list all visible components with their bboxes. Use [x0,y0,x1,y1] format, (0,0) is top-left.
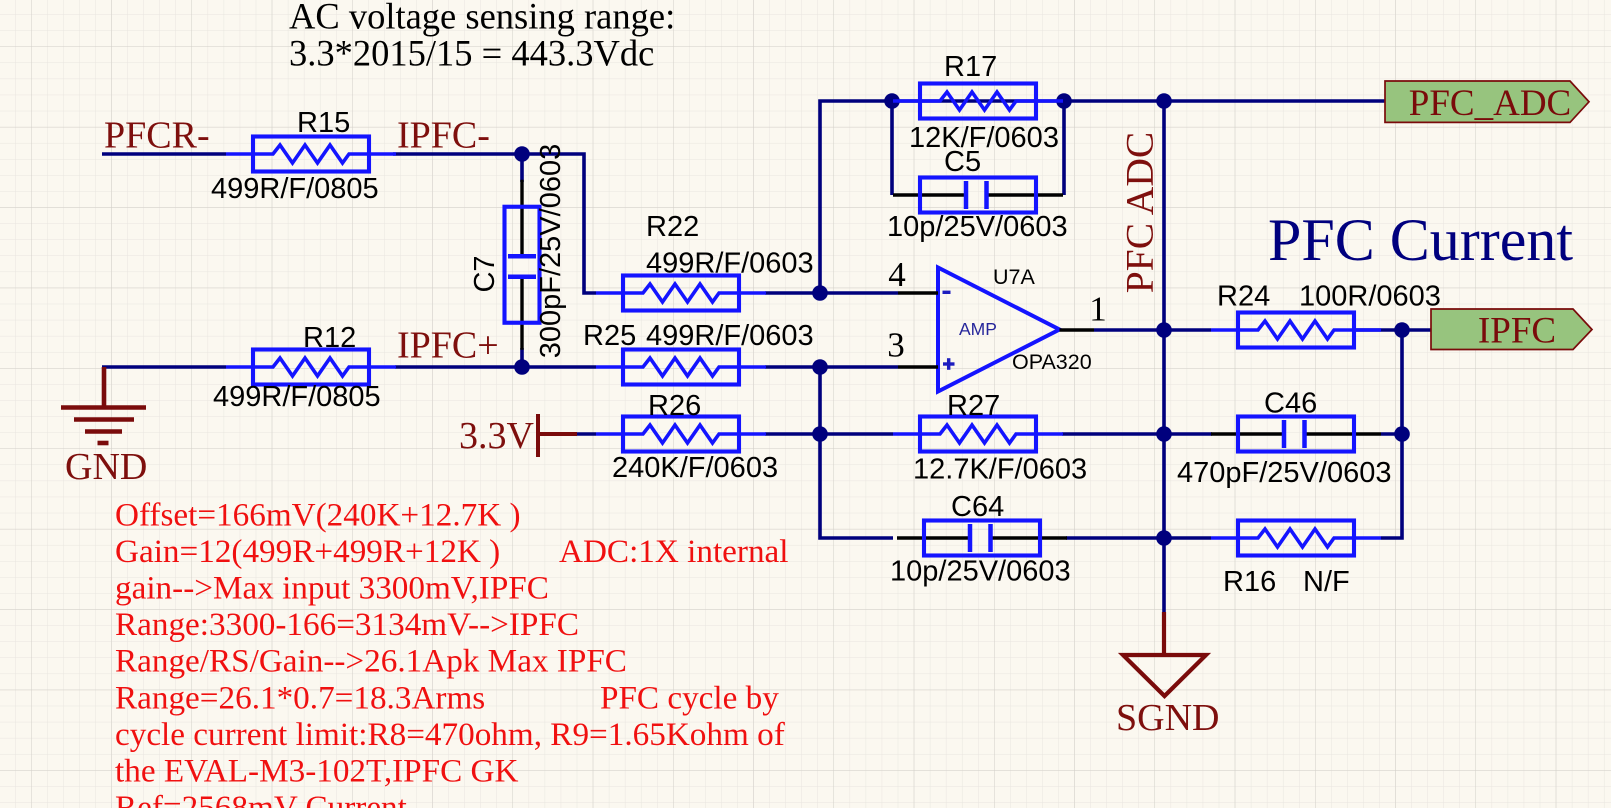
resistor R26 [596,417,766,452]
svg-text:R25: R25 [583,320,636,352]
svg-text:C7: C7 [469,255,501,292]
wire feedback loop left vertical [890,101,894,195]
wire PFC ADC column [1162,101,1166,612]
wire PFCR- to R15 [102,152,226,156]
wire R12 to IPFC+ node to R25 [395,365,596,369]
svg-text:3.3*2015/15 = 443.3Vdc: 3.3*2015/15 = 443.3Vdc [289,33,654,74]
node feedback left junction [884,93,900,109]
wire R27 to C46 row junction [1062,432,1212,436]
svg-text:the EVAL-M3-102T,IPFC GK: the EVAL-M3-102T,IPFC GK [115,753,518,790]
svg-text:AMP: AMP [959,319,997,339]
svg-text:PFCR-: PFCR- [104,115,210,157]
svg-text:Gain=12(499R+499R+12K ): Gain=12(499R+499R+12K ) [115,533,500,570]
svg-text:499R/F/0603: 499R/F/0603 [646,320,814,352]
svg-text:Range=26.1*0.7=18.3Arms: Range=26.1*0.7=18.3Arms [115,679,485,716]
resistor R22 [596,276,766,311]
resistor R15 [226,137,396,172]
svg-text:R16: R16 [1223,566,1276,598]
svg-text:3.3V: 3.3V [459,415,535,457]
resistor R25 [596,350,766,385]
svg-text:U7A: U7A [993,265,1035,289]
svg-text:N/F: N/F [1303,566,1350,598]
node IPFC+ junction [514,359,530,375]
svg-text:IPFC+: IPFC+ [397,325,499,367]
svg-text:10p/25V/0603: 10p/25V/0603 [890,556,1071,588]
svg-text:4: 4 [888,255,906,294]
node op-amp output junction [1156,322,1172,338]
wire C64 to junction [1066,536,1164,540]
port IPFC [1431,309,1592,352]
svg-text:PFC Current: PFC Current [1268,207,1573,273]
capacitor C7 [505,180,540,350]
svg-text:100R/0603: 100R/0603 [1299,281,1441,313]
svg-text:300pF/25V/0603: 300pF/25V/0603 [535,144,567,358]
node divider junction [812,426,828,442]
node C64/R16 junction [1156,530,1172,546]
node IPFC output junction [1394,322,1410,338]
op-amp U7A [938,268,1060,392]
node IPFC- junction [514,146,530,162]
wire feedback vertical from top row to pin4 node [820,101,1385,293]
node R27/C46 junction [1156,426,1172,442]
wire IPFC column [1381,330,1402,538]
wire R25 to pin3 node [765,365,820,369]
power port 3.3V [538,414,577,457]
capacitor C46 [1211,417,1381,452]
node pin4 junction [812,285,828,301]
svg-text:R24: R24 [1217,281,1270,313]
svg-text:IPFC-: IPFC- [397,115,490,157]
ground GND symbol [61,367,146,443]
svg-text:R22: R22 [646,211,699,243]
svg-text:Range:3300-166=3134mV-->IPFC: Range:3300-166=3134mV-->IPFC [115,606,579,643]
svg-text:R27: R27 [947,390,1000,422]
ground SGND symbol [1123,612,1206,696]
svg-text:PFC_ADC: PFC_ADC [1409,83,1571,124]
svg-text:12K/F/0603: 12K/F/0603 [909,122,1059,154]
svg-text:1: 1 [1089,290,1107,329]
wire divider column [820,367,893,538]
node feedback right junction [1056,93,1072,109]
capacitor C64 [897,521,1067,556]
svg-text:OPA320: OPA320 [1012,350,1092,374]
svg-text:240K/F/0603: 240K/F/0603 [612,452,778,484]
op-amp pin 1 lead [1060,328,1095,332]
svg-text:PFC cycle by: PFC cycle by [600,679,779,716]
wire R24 to IPFC port [1354,328,1431,332]
wire C64 row left stub [1164,536,1211,540]
svg-text:Ref=2568mV Current: Ref=2568mV Current [115,789,408,808]
op-amp pin 3 lead [898,365,938,369]
resistor R24 [1211,313,1381,348]
op-amp pin 4 lead [898,291,938,295]
resistor R12 [226,350,396,385]
port PFC_ADC [1385,81,1589,124]
svg-text:IPFC: IPFC [1478,311,1556,352]
svg-text:3: 3 [887,326,905,365]
svg-text:gain-->Max input 3300mV,IPFC: gain-->Max input 3300mV,IPFC [115,570,549,607]
svg-text:499R/F/0603: 499R/F/0603 [646,248,814,280]
svg-text:R15: R15 [297,107,350,139]
svg-text:ADC:1X internal: ADC:1X internal [559,533,789,570]
wire divider node to R27 [820,432,893,436]
svg-text:C64: C64 [951,491,1004,523]
resistor R16 [1211,521,1381,556]
wire feedback loop right vertical [1062,101,1066,195]
wire C7 bottom stub [520,348,524,367]
svg-text:499R/F/0805: 499R/F/0805 [213,381,381,413]
wire 3.3V to R26 [576,432,596,436]
resistor R17 [893,84,1063,119]
svg-text:499R/F/0805: 499R/F/0805 [211,173,379,205]
svg-text:10p/25V/0603: 10p/25V/0603 [887,211,1068,243]
svg-text:R26: R26 [648,390,701,422]
node PFC_ADC column top junction [1156,93,1172,109]
svg-text:GND: GND [65,446,147,488]
wire op-amp output to R24 [1094,328,1211,332]
node C46 right junction [1394,426,1410,442]
wire R15 to IPFC- node and corner down to R22 [393,154,596,293]
capacitor C5 [893,178,1063,213]
svg-text:C5: C5 [944,146,981,178]
svg-text:C46: C46 [1264,388,1317,420]
note red calculations [115,496,789,808]
svg-text:SGND: SGND [1116,697,1219,739]
svg-text:cycle current limit:R8=470ohm,: cycle current limit:R8=470ohm, R9=1.65Ko… [115,716,786,753]
svg-text:R12: R12 [303,322,356,354]
svg-text:470pF/25V/0603: 470pF/25V/0603 [1177,457,1391,489]
wire C7 top stub [520,154,524,182]
wire R22 to pin4 node [765,291,820,295]
svg-text:R17: R17 [944,51,997,83]
svg-text:AC voltage sensing range:: AC voltage sensing range: [289,0,675,37]
wire R26 to divider node [765,432,820,436]
svg-text:PFC ADC: PFC ADC [1118,132,1162,293]
svg-text:Offset=166mV(240K+12.7K ): Offset=166mV(240K+12.7K ) [115,496,521,533]
node pin3 junction [812,359,828,375]
wire C46 right stub [1381,432,1402,436]
wire pin4 node to op-amp pin 4 [820,291,898,295]
resistor R27 [893,417,1063,452]
svg-text:12.7K/F/0603: 12.7K/F/0603 [913,454,1087,486]
wire pin3 node to op-amp pin 3 [820,365,898,369]
svg-text:Range/RS/Gain-->26.1Apk Max IP: Range/RS/Gain-->26.1Apk Max IPFC [115,643,627,680]
wire GND/R12 row [102,365,226,369]
